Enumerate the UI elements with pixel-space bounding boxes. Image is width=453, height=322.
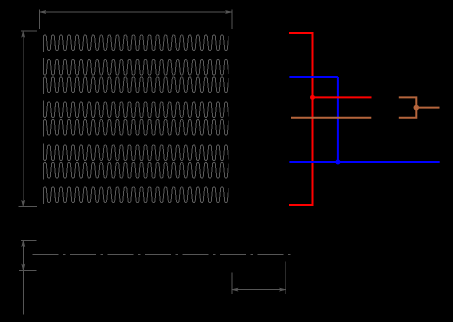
wire blue lower horizontal	[289, 161, 439, 163]
heating element coil row 7	[44, 162, 244, 179]
wire red tap horizontal	[313, 96, 372, 98]
heating element coil row 8	[44, 187, 244, 204]
top width dimension arrow right	[225, 10, 231, 13]
wire red supply bracket	[289, 33, 313, 205]
top width dimension line	[40, 11, 232, 13]
left height dimension extension line bottom	[18, 206, 37, 208]
junction brown node	[414, 105, 420, 111]
bottom-left dimension arrow down	[22, 264, 25, 270]
heating element coil row 3	[44, 77, 244, 94]
left height dimension arrow down	[22, 200, 25, 206]
top width dimension extension line right	[231, 9, 233, 29]
top width dimension extension line left	[39, 9, 41, 29]
left height dimension line	[22, 31, 24, 206]
heating element coil row 5	[44, 119, 244, 136]
junction blue node	[335, 160, 340, 165]
heating element coil row 6	[44, 144, 244, 161]
junction red node	[310, 95, 315, 100]
bottom-left dimension extension line top	[21, 239, 36, 241]
wire brown horizontal	[291, 117, 371, 119]
bottom-right dimension arrow left	[232, 288, 238, 291]
heating element coil row 2	[44, 58, 244, 75]
wire blue vertical	[337, 77, 339, 162]
left height dimension arrow up	[22, 31, 25, 37]
left height dimension extension line top	[21, 30, 37, 32]
heating element coil row 4	[44, 101, 244, 118]
heating element coil row 1	[44, 35, 244, 52]
dash-dot centerline	[33, 253, 291, 255]
bottom-left dimension arrow up	[22, 240, 25, 246]
connector brown bracket	[399, 97, 417, 117]
top width dimension arrow left	[40, 10, 46, 13]
bottom-right dimension line	[232, 289, 286, 291]
bottom-right dimension extension line left	[231, 273, 233, 294]
wire brown tail	[416, 107, 439, 109]
wire blue upper horizontal	[289, 76, 338, 78]
bottom-right dimension extension line right	[285, 262, 287, 294]
bottom-right dimension arrow right	[279, 288, 285, 291]
bottom-left dimension extension line bottom	[19, 269, 37, 271]
bottom-left dimension line	[22, 240, 24, 314]
